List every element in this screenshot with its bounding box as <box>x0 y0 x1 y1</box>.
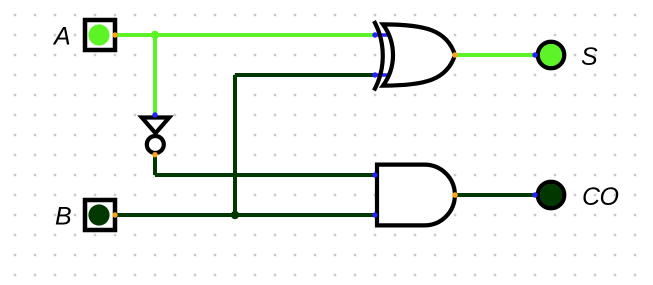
svg-text:A: A <box>52 23 71 51</box>
svg-text:B: B <box>55 203 72 231</box>
svg-text:CO: CO <box>582 183 619 211</box>
svg-text:S: S <box>581 43 598 71</box>
